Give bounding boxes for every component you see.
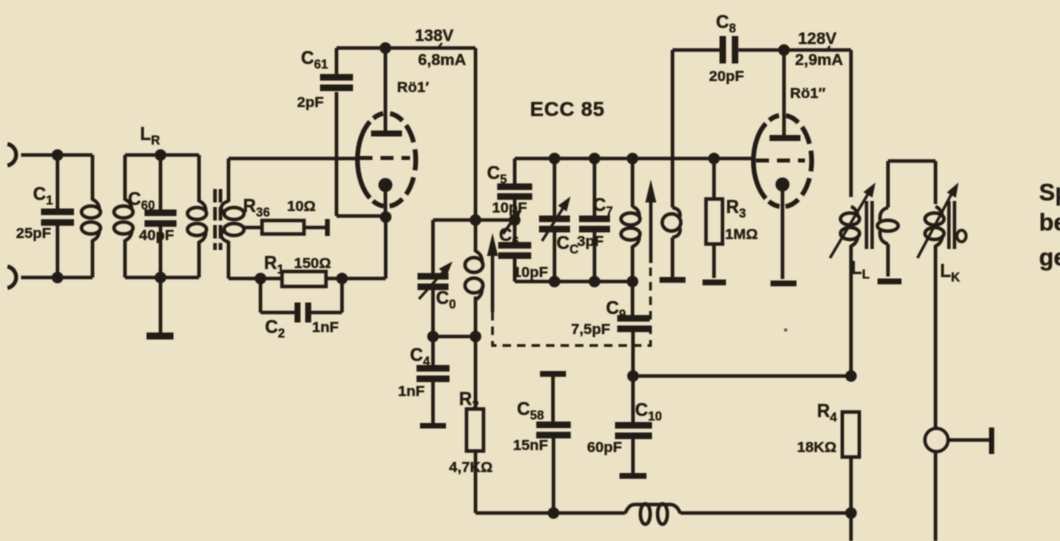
label 10ohm [287,198,316,215]
capacitor C61 [320,48,353,216]
wire C2 loop left [261,279,295,313]
svg-text:3pF: 3pF [577,233,604,250]
label 2pF [297,94,324,111]
svg-text:10pF: 10pF [513,264,548,281]
label 1nF C2 [312,319,339,336]
wire cathode1 bottom [229,277,386,281]
label 10pF C6 [513,264,548,281]
label 150ohm [294,255,331,272]
label C7 [593,195,613,219]
node y376 left [627,370,639,382]
node grid2 [708,153,720,165]
label 15nF [513,437,548,454]
wire top input [21,153,93,157]
tube U1 Roe1 triode a envelope [357,114,415,207]
ground R3 [703,280,727,286]
arrow oscillator tuning 2 [645,180,656,264]
node anode2 top [778,44,790,56]
node C7 top [589,153,601,165]
capacitor C0 variable [418,220,449,337]
svg-text:150Ω: 150Ω [294,255,331,272]
capacitor C2 [295,303,312,323]
label 25pF [16,225,51,242]
wire C0 tap [433,218,515,222]
wire lower bus [515,280,633,284]
label 4,7Kohm [449,459,493,476]
capacitor C4 [417,337,450,426]
node osc coil top [627,153,639,165]
svg-text:10pF: 10pF [492,200,527,217]
svg-text:geä: geä [1039,245,1060,272]
node feed C0 tap [470,214,482,226]
node C7 bottom [589,276,601,288]
caption be [1039,210,1060,237]
arrow C6 [503,208,522,234]
label C6 [499,225,519,249]
terminal C4 end [420,423,446,429]
wire tank2 top [125,153,199,157]
label R36 [243,196,270,220]
tube Roe1a anode [371,48,402,137]
wire bottom input [21,276,93,280]
svg-text:40pF: 40pF [139,227,174,244]
inductor LR primary left [114,155,133,278]
label C1 [33,184,53,208]
tube Roe1b anode [770,50,801,141]
label R2 [459,389,479,413]
label C5 [487,163,507,187]
wire screen y376 [633,374,851,378]
label R4 [817,401,837,425]
wire grid1 [229,157,360,161]
node C1 top [52,149,64,161]
wire supply feed down [474,48,478,252]
label R3 [726,197,746,221]
node C5C6 [509,214,521,226]
inductor LL primary [841,207,860,377]
inductor coupling coil [662,50,681,278]
wire output right [948,438,990,442]
svg-text:1nF: 1nF [398,383,425,400]
tube Roe1a grid [360,156,411,160]
label 7,5pF [571,321,610,338]
capacitor C58 [536,376,571,513]
inductor RF choke [625,504,681,525]
inductor antenna coil [82,155,101,278]
capacitor C60 [145,155,177,278]
node anode1 top [380,42,392,54]
capacitor CC variable [539,159,570,282]
label C10 [635,400,662,424]
svg-text:bei: bei [1039,210,1060,237]
node y376 right [845,370,857,382]
antenna input terminal top [8,144,17,166]
label 1nF C4 [398,383,425,400]
label 40pF [139,227,174,244]
terminal C58 top [540,371,566,377]
node CC top [549,153,561,165]
label 6,8mA [418,52,466,69]
wire bottom rail [476,511,852,515]
svg-text:138V: 138V [415,27,454,45]
wire supply1 top [337,46,476,50]
label 20pF [709,68,744,85]
label ECC85 [530,98,605,121]
svg-text:Rö1′: Rö1′ [397,79,429,96]
capacitor C9 [617,282,650,377]
resistor R36 [262,221,326,235]
node R1 right [336,273,348,285]
ground coupling coil [660,277,686,283]
tube Roe1b cathode [776,178,790,280]
dashed gang linkage [493,263,651,346]
svg-text:20pF: 20pF [709,68,744,85]
capacitor C7 [579,159,610,282]
label C60 [128,189,155,213]
tick 138V [438,43,442,48]
terminal R36 end [325,219,330,236]
label C9 [606,298,626,322]
wire R4 down edge [849,513,853,541]
connector output circle [925,429,948,452]
wire R36 tap [242,226,262,230]
resistor R3 [706,159,723,279]
transformer core [215,189,221,250]
label C58 [517,399,544,423]
label 60pF [587,439,622,456]
svg-text:15nF: 15nF [513,437,548,454]
transformer LL core [865,201,874,249]
label LL [851,258,870,282]
label C8 [716,12,736,36]
node C60 top [155,149,167,161]
tick 128V [826,46,830,51]
wire cathode1 up [384,216,388,279]
label 138V [415,27,454,45]
wire LL-LK bracket [888,159,936,163]
node C0 bottom [427,331,439,343]
svg-text:10Ω: 10Ω [287,198,316,215]
resistor R4 [842,412,859,513]
terminal output bar [989,428,994,455]
inductor osc tank coil [621,159,640,282]
tube Roe1a cathode [378,178,392,217]
svg-text:Rö1″: Rö1″ [790,85,826,102]
svg-text:25pF: 25pF [16,225,51,242]
resistor R2 [467,337,484,514]
wire top bus [515,157,754,161]
ground cathode2 [771,281,797,287]
capacitor C1 [41,155,74,278]
label C0 [436,288,456,312]
caption Sp [1039,180,1060,207]
coil LK right loop [957,230,966,242]
label 2,9mA [795,52,843,69]
ground LL secondary [878,279,902,285]
caption ge [1039,245,1060,272]
capacitor C8 [720,36,739,64]
wire C8 left [673,48,721,52]
arrow C0 [419,262,453,300]
ground C10 [620,473,647,479]
label C4 [410,345,430,369]
wire anode2 feed down [849,50,853,197]
inductor LK [925,161,944,429]
capacitor C5 [497,159,532,221]
label CC [557,233,579,257]
svg-text:60pF: 60pF [587,439,622,456]
arrow oscillator tuning 1 [487,233,498,312]
node C60 bottom [155,272,167,284]
wire C8 right [738,48,851,52]
arrow LL [830,183,876,259]
label 3pF [577,233,604,250]
node feed coil bottom [470,331,482,343]
svg-text:1MΩ: 1MΩ [725,226,758,243]
transformer LK core [947,201,956,249]
wire tank2 bottom [125,276,199,280]
node CC bottom [549,276,561,288]
inductor LR secondary [221,159,244,279]
node R1 left [255,273,267,285]
arrow CC [542,197,571,242]
wire C0-feed bottom [433,335,476,339]
svg-text:4,7KΩ: 4,7KΩ [449,459,493,476]
label C2 [265,317,285,341]
arrow LK [918,183,959,259]
wire C61 bottom [337,214,386,218]
svg-text:Spa: Spa [1039,180,1060,207]
label 1Mohm [725,226,758,243]
svg-text:2pF: 2pF [297,94,324,111]
node cathode1 [380,211,392,223]
antenna input terminal bottom [8,267,17,289]
node osc coil bottom [627,276,639,288]
label Roe1p [397,79,429,96]
inductor LR primary right [188,155,207,278]
svg-text:2,9mA: 2,9mA [795,52,843,69]
node C1 bottom [52,272,64,284]
tube U2 Roe1 triode b envelope [753,116,811,207]
wire LK down [934,429,938,541]
node R4 bottom [845,507,857,519]
wire C2 loop right [311,279,342,313]
label 18Kohm [797,439,837,456]
svg-text:7,5pF: 7,5pF [571,321,610,338]
svg-text:18KΩ: 18KΩ [797,439,837,456]
inductor osc feed coil [465,251,483,336]
svg-text:1nF: 1nF [312,319,339,336]
ground [147,278,174,340]
capacitor C10 [615,376,652,474]
inductor LL secondary [877,161,898,277]
svg-text:128V: 128V [798,30,837,48]
label R1 [264,253,284,277]
capacitor C6 variable [498,220,531,282]
label LK [940,261,960,285]
svg-text:6,8mA: 6,8mA [418,52,466,69]
label LR [140,124,160,148]
svg-text:ECC 85: ECC 85 [530,98,605,121]
label 128V [798,30,837,48]
speck [784,328,787,331]
label Roe1pp [790,85,826,102]
resistor R1 [282,272,326,287]
node C58 bottom [548,507,560,519]
tube Roe1b grid [756,159,805,163]
label 10pF C5 [492,200,527,217]
label C61 [301,48,328,72]
